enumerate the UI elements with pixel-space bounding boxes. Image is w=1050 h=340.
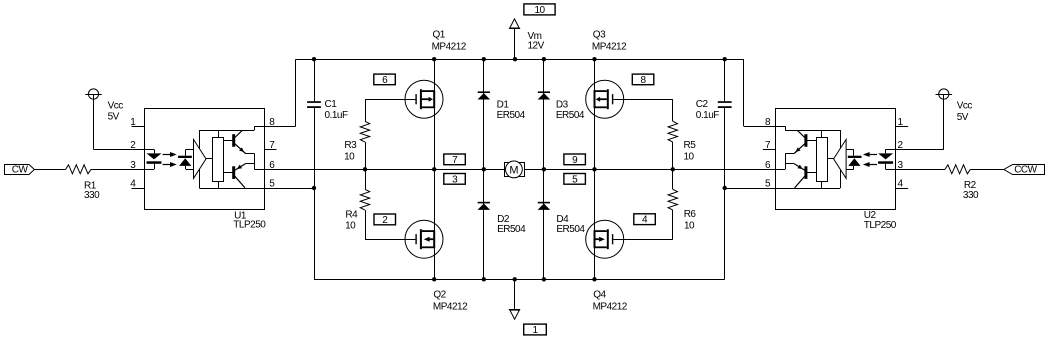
svg-text:10: 10 — [684, 220, 695, 231]
wire: Q3 drain to rail — [594, 59, 596, 90]
wire: Vm power stub — [514, 28, 516, 59]
wire: R5 gate branch to Q3 — [613, 99, 673, 121]
svg-text:330: 330 — [963, 190, 979, 201]
wire: ground bottom rail — [314, 279, 725, 281]
junction: U1 pin5 / C1 gnd — [312, 186, 316, 190]
wire: mid node to R6 top — [672, 169, 674, 189]
svg-text:CCW: CCW — [1014, 165, 1037, 176]
wire: U2 pin5 to ground branch — [725, 188, 776, 190]
svg-text:D3: D3 — [556, 100, 569, 111]
resistor R3 — [360, 121, 369, 142]
junction: rail / D1 — [482, 57, 486, 61]
resistor R2 — [945, 165, 970, 174]
wire: mid row left (U1 out to motor) — [264, 169, 504, 171]
wire: mid node to Q2 drain — [434, 169, 436, 230]
svg-text:ER504: ER504 — [556, 110, 585, 121]
label Q2 MP4212 — [433, 290, 468, 313]
motor M — [505, 161, 525, 178]
pin numbers U1 left 1-4 — [130, 117, 136, 190]
wire: mid row right (motor to U2 out) — [525, 169, 776, 171]
power Vcc left — [85, 89, 102, 99]
label U1 TLP250 — [233, 211, 266, 231]
junction: mid / Q1 Q2 — [432, 167, 436, 171]
svg-text:10: 10 — [344, 151, 355, 162]
net label box 1 — [524, 324, 547, 336]
net label box 2 — [374, 214, 396, 226]
transistor Q2 MOSFET — [405, 220, 443, 258]
label R6 10 — [684, 209, 697, 231]
junction: mid / R3 R4 — [363, 167, 367, 171]
net label box 6 — [374, 74, 396, 86]
svg-text:5V: 5V — [108, 112, 120, 123]
label Vcc 5V right — [957, 101, 973, 123]
svg-text:D1: D1 — [497, 100, 510, 111]
wire: D2 branch — [483, 169, 485, 279]
net label box 8 — [632, 74, 654, 86]
net label box 5 — [564, 174, 586, 186]
svg-text:TLP250: TLP250 — [864, 220, 897, 231]
wire: U2 pin8 to top rail — [744, 59, 776, 126]
svg-text:10: 10 — [534, 5, 545, 16]
junction: mid / Q3 Q4 — [592, 167, 596, 171]
diode D4 — [538, 202, 551, 210]
power Vcc right — [936, 89, 953, 99]
transistor Q3 MOSFET — [586, 80, 624, 118]
svg-text:MP4212: MP4212 — [592, 42, 627, 53]
label D2 ER504 — [497, 214, 526, 235]
label Vcc 5V left — [108, 100, 124, 122]
resistor R1 — [66, 165, 91, 174]
label Q1 MP4212 — [432, 30, 467, 53]
pin numbers U2 right 1-4 — [898, 117, 904, 190]
wire: D4 branch — [543, 169, 545, 279]
svg-text:MP4212: MP4212 — [433, 302, 468, 313]
label Q3 MP4212 — [592, 30, 627, 53]
label D4 ER504 — [556, 214, 585, 235]
label R1 330 — [84, 180, 100, 201]
label Q4 MP4212 — [593, 290, 628, 313]
diode D2 — [478, 202, 491, 210]
svg-text:ER504: ER504 — [556, 224, 585, 235]
pin stubs U1 left — [132, 127, 145, 189]
label R4 10 — [345, 209, 358, 231]
svg-text:C1: C1 — [325, 99, 338, 110]
wire: Q3 source to mid node — [594, 108, 596, 169]
transistor Q4 MOSFET — [586, 220, 624, 258]
resistor R5 — [668, 121, 677, 142]
label D1 ER504 — [497, 100, 526, 122]
svg-text:ER504: ER504 — [497, 224, 526, 235]
wire: Vcc right to U2 pin2 — [896, 94, 944, 150]
wire: mid node to R4 top — [365, 169, 367, 189]
wire: R1 to U1 pin3 — [91, 169, 144, 171]
pin stub U2 pin7 — [763, 149, 776, 151]
capacitor C2 — [718, 101, 732, 108]
junction: U2 pin5 / C2 gnd — [723, 186, 727, 190]
label R2 330 — [963, 180, 979, 201]
svg-text:C2: C2 — [696, 99, 709, 110]
junction: gnd rail / D2 — [482, 277, 486, 281]
svg-text:R3: R3 — [344, 140, 357, 151]
wire: U1 pin8 to top rail — [264, 59, 295, 126]
resistor R4 — [360, 189, 369, 210]
svg-text:CW: CW — [12, 165, 29, 176]
svg-text:0.1uF: 0.1uF — [325, 110, 348, 121]
port CW — [5, 165, 35, 176]
wire: R6 bottom to Q4 gate — [613, 210, 673, 239]
wire: Q4 source to ground rail — [594, 248, 596, 279]
svg-text:Q1: Q1 — [433, 30, 446, 41]
svg-text:ER504: ER504 — [497, 110, 526, 121]
svg-text:Vcc: Vcc — [108, 100, 124, 111]
wire: ground stub — [514, 279, 516, 309]
transistor Q1 MOSFET — [405, 80, 443, 118]
svg-text:Q3: Q3 — [593, 30, 606, 41]
wire: CW input to R1 — [35, 169, 66, 171]
svg-text:5V: 5V — [957, 112, 969, 123]
svg-text:0.1uF: 0.1uF — [696, 110, 719, 121]
ground symbol — [509, 310, 520, 320]
svg-text:Vcc: Vcc — [957, 101, 973, 112]
svg-text:R4: R4 — [345, 209, 358, 220]
net label box 3 — [444, 174, 466, 186]
label Vm 12V — [528, 31, 545, 51]
wire: Vcc left to U1 pin2 — [94, 94, 145, 150]
svg-text:R6: R6 — [684, 209, 697, 220]
svg-text:MP4212: MP4212 — [593, 302, 628, 313]
svg-text:MP4212: MP4212 — [432, 42, 467, 53]
port CCW — [1004, 165, 1045, 176]
junction: rail / Q1 drain — [432, 57, 436, 61]
svg-text:10: 10 — [345, 221, 356, 232]
wire: U1 pin5 to ground branch — [264, 188, 314, 190]
wire: Q2 source to ground rail — [434, 248, 436, 279]
junction: gnd rail / Q4 source — [592, 277, 596, 281]
svg-text:330: 330 — [84, 190, 100, 201]
label U2 TLP250 — [864, 210, 897, 231]
wire: C1 branch vertical — [314, 59, 316, 279]
capacitor C1 — [307, 101, 321, 108]
svg-text:10: 10 — [684, 151, 695, 162]
label R3 10 — [344, 140, 357, 162]
junction: mid / D3 D4 — [542, 167, 546, 171]
wire: +12V top rail — [296, 59, 744, 61]
junction: gnd rail / gnd stub — [513, 277, 517, 281]
power symbol Vm triangle — [509, 19, 520, 29]
junction: rail / Vm — [513, 57, 517, 61]
wire: D3 branch — [543, 59, 545, 169]
label R5 10 — [684, 140, 697, 162]
wire: R3 bottom to mid node — [365, 142, 367, 169]
svg-text:R5: R5 — [684, 140, 697, 151]
junction: rail / C2 — [723, 57, 727, 61]
wire: mid node to Q4 drain — [594, 169, 596, 230]
resistor R6 — [668, 189, 677, 210]
junction: gnd rail / D4 — [542, 277, 546, 281]
op-amp U2 optocoupler TLP250 — [775, 109, 895, 210]
label C1 0.1uF — [325, 99, 348, 121]
net label box 9 — [564, 154, 586, 166]
wire: D1 branch — [483, 59, 485, 169]
junction: gnd rail / Q2 source — [432, 277, 436, 281]
wire: R4 bottom to Q2 gate — [365, 210, 415, 239]
diode D3 — [538, 91, 551, 99]
pin numbers U1 right 8-5 — [269, 117, 275, 190]
wire: R2 to CCW input — [970, 169, 1003, 171]
wire: U2 pin3 to R2 — [896, 169, 945, 171]
net label box 4 — [634, 214, 656, 226]
junction: rail / Q3 drain — [592, 57, 596, 61]
svg-text:Q2: Q2 — [433, 290, 446, 301]
svg-text:12V: 12V — [528, 41, 545, 52]
label C2 0.1uF — [696, 99, 719, 121]
pin stub U1 pin7 — [264, 149, 276, 151]
junction: rail / D3 — [542, 57, 546, 61]
svg-text:Q4: Q4 — [593, 290, 606, 301]
wire: Q1 drain to rail — [434, 59, 436, 90]
wire: R5 bottom to mid node — [672, 142, 674, 169]
op-amp U1 optocoupler TLP250 — [144, 109, 265, 210]
net label box 7 — [444, 154, 466, 166]
junction: mid / D1 D2 — [482, 167, 486, 171]
svg-text:TLP250: TLP250 — [233, 220, 266, 231]
net label box 10 — [524, 4, 555, 16]
wire: R3 gate branch to Q1 — [365, 99, 415, 121]
label D3 ER504 — [556, 100, 585, 122]
svg-text:M: M — [509, 165, 518, 177]
wire: C2 branch vertical — [724, 59, 726, 279]
junction: mid / R5 R6 — [671, 167, 675, 171]
pin numbers U2 left 8-5 — [765, 117, 771, 190]
junction: rail / C1 — [312, 57, 316, 61]
diode D1 — [478, 91, 491, 99]
wire: Q1 source to mid node — [434, 108, 436, 169]
pin stubs U2 right — [896, 127, 908, 189]
